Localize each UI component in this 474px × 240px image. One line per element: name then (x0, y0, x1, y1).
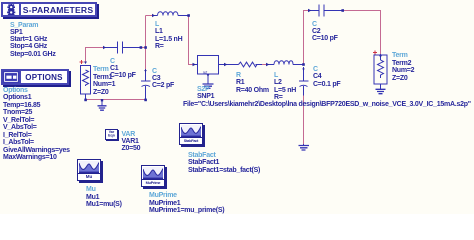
svg-text:ref: ref (203, 71, 207, 75)
